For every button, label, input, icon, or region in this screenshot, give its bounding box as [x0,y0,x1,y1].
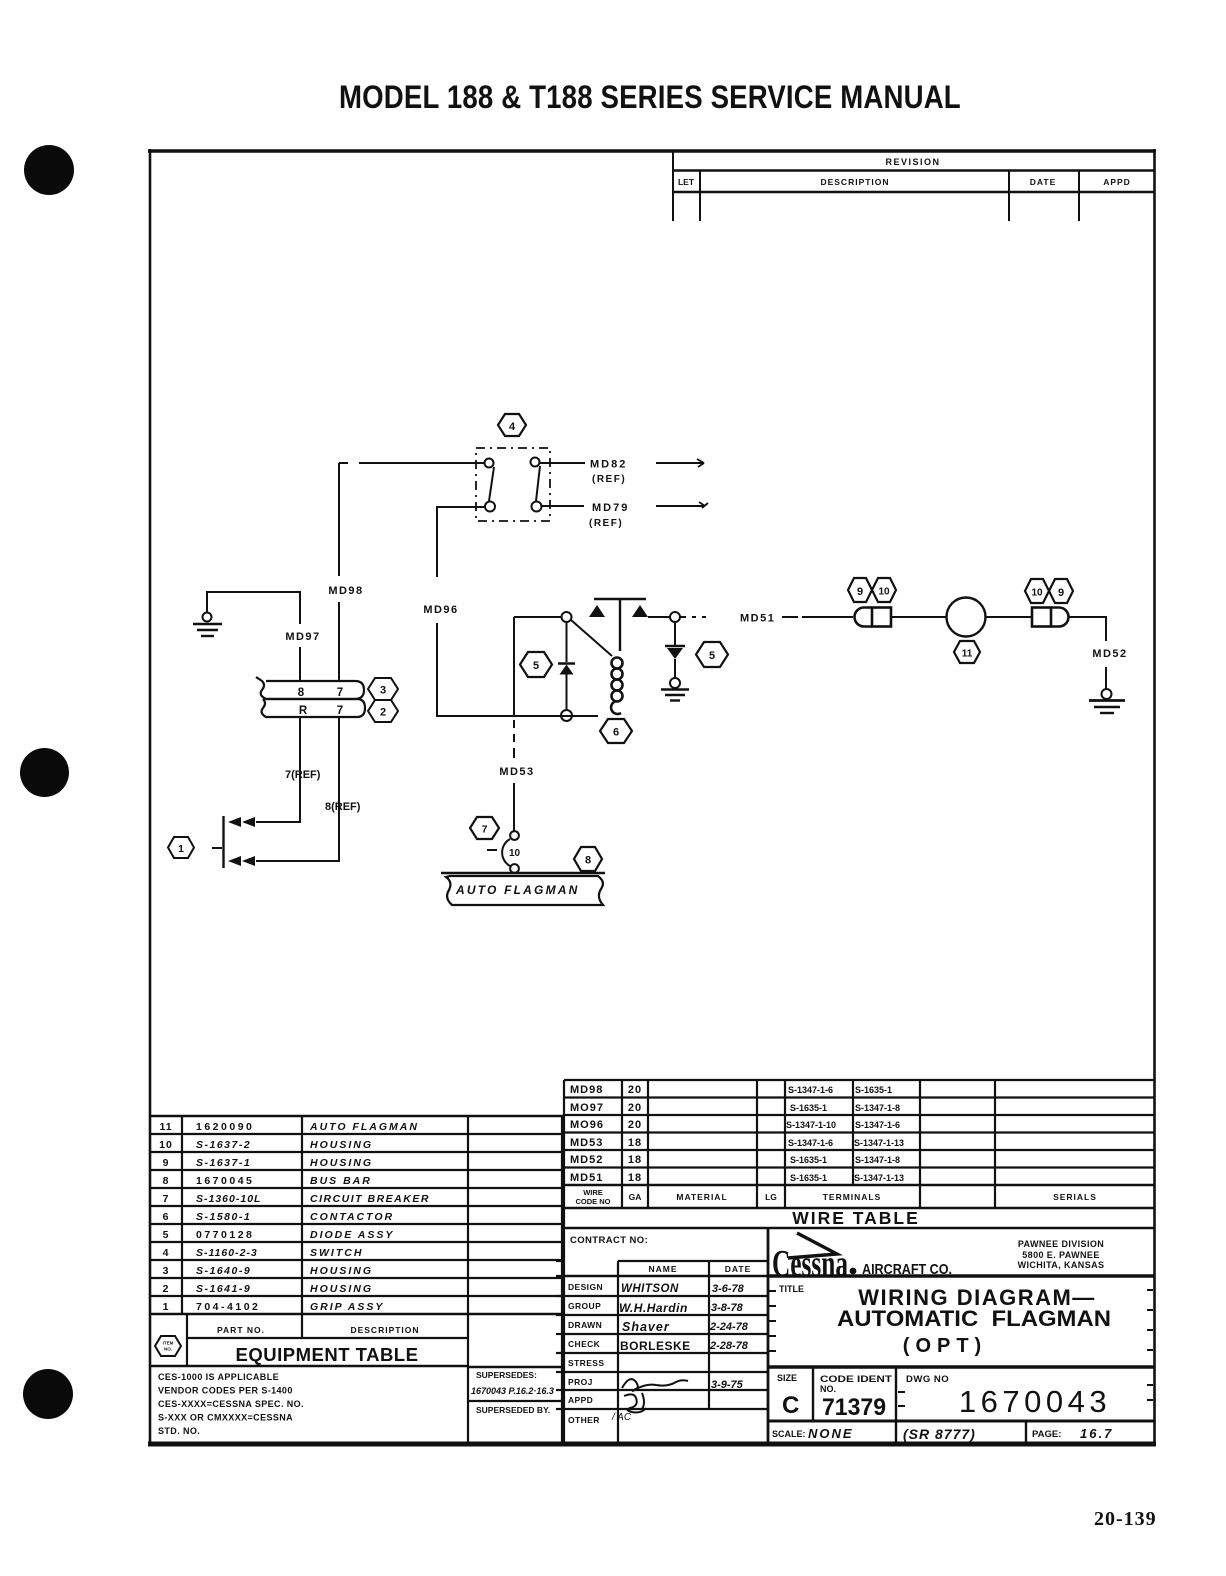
svg-text:Shaver: Shaver [622,1320,670,1334]
wire 8(REF) below connector [256,717,339,861]
title cell edge ticks [769,1290,1153,1406]
ground (right diode) [661,678,689,701]
svg-text:SIZE: SIZE [777,1373,797,1383]
svg-text:S-1580-1: S-1580-1 [196,1211,251,1223]
svg-text:(OPT): (OPT) [903,1335,987,1357]
svg-text:8: 8 [585,855,591,867]
equipment table grid [151,1116,564,1367]
svg-text:S-1635-1: S-1635-1 [790,1155,827,1165]
svg-text:PROJ: PROJ [568,1377,593,1387]
svg-text:3: 3 [380,685,386,697]
bus bar (item 8) banner [441,873,605,905]
wire MD96 vertical [437,507,485,715]
svg-text:PAWNEE DIVISION: PAWNEE DIVISION [1018,1239,1104,1249]
connector pin R / pin 7 row 2 [299,705,343,717]
bus bar label AUTO FLAGMAN [455,883,580,897]
item callout 1 (grip assy) [168,837,194,858]
svg-text:HOUSING: HOUSING [310,1265,373,1277]
wire motor to right connector [986,616,1033,618]
drawing border frame [148,149,1156,1444]
svg-text:TITLE: TITLE [779,1284,804,1294]
wire table terminals text [786,1085,904,1183]
svg-text:S-1347-1-13: S-1347-1-13 [854,1173,904,1183]
svg-text:5: 5 [533,660,539,672]
svg-text:NO.: NO. [820,1384,836,1394]
net label MD51 [740,613,775,625]
net label MD53 [499,766,534,778]
proj signature squiggle [622,1379,688,1391]
svg-text:1670045: 1670045 [196,1175,254,1187]
svg-text:AUTO FLAGMAN: AUTO FLAGMAN [455,883,580,897]
title block grid right [768,1276,1154,1444]
item callout 5 (diode assy, left) [520,652,552,677]
wire table rows text [570,1084,642,1184]
grip assy (item 1) arrows row 2 [228,856,255,866]
svg-text:WICHITA, KANSAS: WICHITA, KANSAS [1018,1260,1105,1270]
appd signature squiggle [624,1393,646,1413]
svg-text:TERMINALS: TERMINALS [823,1192,882,1202]
svg-text:LET: LET [678,177,695,187]
svg-text:18: 18 [628,1172,642,1184]
hole punch top [24,145,74,195]
contactor fixed contact right [632,605,648,617]
svg-text:8: 8 [298,687,305,699]
svg-text:DESCRIPTION: DESCRIPTION [820,177,889,187]
svg-text:DESIGN: DESIGN [568,1282,603,1292]
svg-text:CODE NO: CODE NO [575,1197,610,1206]
svg-text:VENDOR CODES PER S-1400: VENDOR CODES PER S-1400 [158,1386,293,1396]
svg-text:WIRE: WIRE [583,1188,603,1197]
svg-text:5: 5 [709,650,715,662]
svg-text:0770128: 0770128 [196,1229,254,1241]
drawing title text [779,1284,1111,1357]
svg-text:20: 20 [628,1102,642,1114]
svg-text:10: 10 [1031,588,1043,599]
wire MD52 [1069,617,1106,689]
svg-text:S-1160-2-3: S-1160-2-3 [196,1247,258,1259]
grip assy (item 1) arrows row 1 [228,817,255,827]
svg-text:WIRE TABLE: WIRE TABLE [792,1208,920,1228]
svg-text:S-1360-10L: S-1360-10L [196,1193,261,1205]
sr number cell [903,1426,976,1442]
title block left labels [568,1235,751,1425]
svg-text:DWG NO: DWG NO [906,1374,949,1385]
item callout 3 (housing) [368,678,398,700]
svg-text:DRAWN: DRAWN [568,1320,602,1330]
svg-text:HOUSING: HOUSING [310,1157,373,1169]
svg-text:APPD: APPD [1103,177,1131,187]
svg-text:10: 10 [509,848,521,859]
page heading [339,79,961,116]
wire MD51 to motor [891,616,947,618]
svg-text:7(REF): 7(REF) [285,769,321,781]
wire MD82 (REF) stub [539,462,585,464]
net label MD52 [1092,648,1127,660]
svg-text:NO.: NO. [164,1347,172,1352]
hole punch bottom [23,1369,73,1419]
svg-text:20: 20 [628,1084,642,1096]
title block grid left [564,1228,768,1444]
svg-text:Cessna: Cessna [772,1243,848,1285]
label 8(REF) [325,801,361,813]
ground (left, MD97 net) [193,592,222,636]
svg-text:GRIP ASSY: GRIP ASSY [310,1301,384,1313]
cessna logo [772,1243,952,1285]
svg-text:S-1635-1: S-1635-1 [790,1173,827,1183]
connector pair left (items 9/10) [855,608,891,627]
wire MD97 vertical [299,591,301,681]
item callout 6 (contactor) [600,719,632,743]
page number [1094,1508,1157,1531]
equipment table item rows [159,1121,430,1313]
svg-text:S-1635-1: S-1635-1 [790,1103,827,1113]
pawnee division address [1018,1239,1105,1270]
svg-text:OTHER: OTHER [568,1415,600,1425]
svg-text:9: 9 [857,586,863,598]
svg-text:MD52: MD52 [570,1154,603,1166]
svg-text:8: 8 [163,1175,170,1187]
svg-text:1620090: 1620090 [196,1121,254,1133]
svg-text:CIRCUIT BREAKER: CIRCUIT BREAKER [310,1193,430,1205]
equipment table header [217,1325,420,1335]
svg-text:7: 7 [337,705,343,717]
item callout 11 (auto flagman) [954,641,980,663]
net label MD96 [423,604,458,616]
svg-text:HOUSING: HOUSING [310,1283,373,1295]
scale cell [772,1426,854,1441]
circuit breaker (item 7) [487,831,519,873]
svg-text:SWITCH: SWITCH [310,1247,363,1259]
switch pole A [485,459,496,512]
connector pair right (items 10/9) [1032,608,1069,627]
svg-text:S-1637-1: S-1637-1 [196,1157,251,1169]
svg-text:18: 18 [628,1137,642,1149]
svg-text:SERIALS: SERIALS [1053,1192,1097,1202]
svg-text:11: 11 [962,649,973,660]
svg-text:1670043: 1670043 [959,1384,1111,1419]
svg-text:20: 20 [628,1119,642,1131]
svg-text:S-1637-2: S-1637-2 [196,1139,251,1151]
svg-text:8(REF): 8(REF) [325,801,361,813]
svg-text:S-XXX OR CMXXXX=CESSNA: S-XXX OR CMXXXX=CESSNA [158,1413,293,1423]
svg-text:5: 5 [163,1229,170,1241]
svg-text:4: 4 [163,1247,170,1259]
item callout 8 (bus bar) [574,847,602,871]
net label MD97 [285,631,320,643]
svg-text:MD98: MD98 [570,1084,603,1096]
cessna swoosh [788,1233,837,1258]
wire MD53 vertical [513,617,515,831]
svg-text:MD52: MD52 [1092,648,1127,660]
svg-text:CONTRACT NO:: CONTRACT NO: [570,1235,648,1246]
svg-text:LG: LG [765,1192,777,1202]
svg-text:7: 7 [163,1193,170,1205]
svg-text:MD51: MD51 [570,1172,603,1184]
equipment table caption [236,1344,419,1365]
svg-text:C: C [782,1392,799,1419]
svg-text:(REF): (REF) [589,518,623,529]
svg-text:3-8-78: 3-8-78 [711,1302,744,1314]
svg-text:3-6-78: 3-6-78 [712,1283,745,1295]
svg-text:PART NO.: PART NO. [217,1325,265,1335]
wire MD79 arrow [656,502,708,508]
item callout 10 (housing, left pair) [872,578,896,602]
svg-text:S-1641-9: S-1641-9 [196,1283,251,1295]
svg-text:MO96: MO96 [570,1119,604,1131]
wire MD98 top horizontal to switch [339,462,484,464]
svg-text:3: 3 [163,1265,170,1277]
svg-text:EQUIPMENT TABLE: EQUIPMENT TABLE [236,1344,419,1365]
vendor code notes [158,1372,304,1436]
svg-text:9: 9 [1058,587,1064,599]
svg-text:NONE: NONE [808,1426,854,1441]
svg-text:CES-XXXX=CESSNA SPEC. NO.: CES-XXXX=CESSNA SPEC. NO. [158,1399,304,1409]
svg-text:S-1347-1-6: S-1347-1-6 [788,1085,833,1095]
svg-text:(SR 8777): (SR 8777) [903,1426,976,1442]
svg-text:MD79: MD79 [592,502,629,514]
svg-text:AUTOMATIC FLAGMAN: AUTOMATIC FLAGMAN [837,1306,1111,1331]
diode assy left (item 5) [558,622,575,710]
node A (coil/diode top) [562,612,572,622]
svg-text:704-4102: 704-4102 [196,1301,260,1313]
svg-text:9: 9 [163,1157,170,1169]
wire table header [575,1188,1096,1206]
svg-text:S-1640-9: S-1640-9 [196,1265,251,1277]
wire MD82 arrow [656,459,704,467]
svg-text:GROUP: GROUP [568,1301,601,1311]
grip assy (item 1) bar [212,816,224,868]
svg-text:DATE: DATE [725,1264,752,1274]
svg-text:R: R [299,705,308,717]
wire MD53 to node [514,616,561,618]
svg-text:BUS BAR: BUS BAR [310,1175,372,1187]
svg-text:MD51: MD51 [740,613,775,625]
svg-text:DATE: DATE [1030,177,1057,187]
wire MD51 [680,616,853,618]
svg-text:S-1347-1-8: S-1347-1-8 [855,1155,900,1165]
svg-text:10: 10 [159,1139,173,1151]
hole punch middle [20,748,69,797]
svg-text:2: 2 [380,707,386,719]
svg-text:4: 4 [509,421,516,433]
ground (MD52) [1089,689,1125,713]
svg-text:PAGE:: PAGE: [1032,1429,1061,1440]
svg-text:1: 1 [163,1301,170,1313]
wire MD98 vertical [338,463,340,681]
svg-text:S-1347-1-8: S-1347-1-8 [855,1103,900,1113]
svg-text:MATERIAL: MATERIAL [676,1192,727,1202]
code ident cell [820,1374,892,1421]
svg-text:ITEM: ITEM [163,1341,174,1346]
svg-text:5800 E. PAWNEE: 5800 E. PAWNEE [1022,1250,1099,1260]
switch (item 4) dashed outline [476,448,550,521]
svg-text:2-28-78: 2-28-78 [709,1340,749,1352]
svg-text:7: 7 [337,687,343,699]
supersedes text [471,1370,554,1415]
wire from right contact to node C [648,616,670,618]
svg-text:HOUSING: HOUSING [310,1139,373,1151]
contactor (item 6) moving bar and stem [594,599,646,651]
node C (MD51 junction) [670,612,680,622]
svg-text:S-1347-1-6: S-1347-1-6 [855,1120,900,1130]
item no hexagon symbol [155,1336,181,1356]
wire MD79 (REF) stub [541,505,584,507]
title block left edge stubs [556,1261,564,1409]
svg-text:S-1347-1-6: S-1347-1-6 [788,1138,833,1148]
breaker rating 10 [509,848,521,859]
item callout 10 (housing, right pair) [1025,579,1049,603]
item callout 7 (circuit breaker) [470,817,499,839]
supersedes box [468,1228,562,1444]
svg-text:3-9-75: 3-9-75 [711,1379,744,1391]
svg-text:18: 18 [628,1154,642,1166]
wire table caption [792,1208,920,1228]
other signature [611,1412,632,1423]
svg-text:MD82: MD82 [590,459,627,471]
svg-text:10: 10 [878,587,890,598]
wire table grid [564,1080,1154,1228]
svg-text:APPD: APPD [568,1395,593,1405]
svg-text:STRESS: STRESS [568,1358,604,1368]
diode assy right (item 5) [665,622,685,678]
switch pole B [531,458,542,512]
svg-text:6: 6 [163,1211,170,1223]
svg-text:(REF): (REF) [592,474,626,485]
svg-text:W.H.Hardin: W.H.Hardin [619,1301,688,1315]
svg-text:71379: 71379 [822,1394,886,1421]
svg-text:BORLESKE: BORLESKE [620,1339,691,1353]
svg-text:SCALE:: SCALE: [772,1429,806,1439]
svg-text:SUPERSEDED BY.: SUPERSEDED BY. [476,1405,550,1415]
svg-text:WHITSON: WHITSON [621,1283,679,1295]
wire MD97 horizontal [206,591,300,593]
svg-text:2-24-78: 2-24-78 [709,1321,749,1333]
wire 7(REF) below connector [256,717,300,822]
svg-text:SUPERSEDES:: SUPERSEDES: [476,1370,537,1380]
svg-text:MO97: MO97 [570,1102,604,1114]
svg-text:S-1635-1: S-1635-1 [855,1085,892,1095]
svg-text:MD53: MD53 [570,1137,603,1149]
svg-text:MD53: MD53 [499,766,534,778]
svg-text:REVISION: REVISION [885,157,940,167]
auto flagman motor (item 11) [947,598,986,637]
title block signatures [619,1283,749,1391]
size cell [777,1373,799,1419]
svg-text:AUTO FLAGMAN: AUTO FLAGMAN [309,1121,419,1133]
svg-text:STD. NO.: STD. NO. [158,1426,200,1436]
svg-text:MD97: MD97 [285,631,320,643]
svg-text:MD98: MD98 [328,585,363,597]
svg-text:GA: GA [629,1192,642,1202]
contactor coil (item 6) [611,658,622,714]
connector (items 3/2) row 2 [262,699,365,717]
wire MD96 bottom horizontal [436,715,598,717]
net label MD82 (REF) [590,459,627,486]
svg-text:16.7: 16.7 [1080,1426,1113,1441]
svg-text:1: 1 [178,843,184,855]
svg-text:S-1347-1-10: S-1347-1-10 [786,1120,836,1130]
svg-text:1670043 P.16.2·16.3: 1670043 P.16.2·16.3 [471,1386,554,1396]
node B (diode bottom junction) [561,710,572,721]
item callout 9 (housing, right pair) [1049,579,1073,603]
connector pin 8 / pin 7 row 1 [298,687,343,699]
contactor armature diagonal [571,620,612,656]
revision table [673,150,1154,221]
svg-text:CONTACTOR: CONTACTOR [310,1211,394,1223]
svg-text:7: 7 [482,824,488,836]
svg-text:CHECK: CHECK [568,1339,601,1349]
net label MD79 (REF) [589,502,629,529]
page cell [1032,1426,1113,1441]
item callout 5 (diode assy, right) [696,642,728,667]
svg-text:S-1347-1-13: S-1347-1-13 [854,1138,904,1148]
svg-text:/ AC: / AC [611,1412,632,1423]
item callout 9 (housing, left pair) [848,578,872,602]
svg-text:CES-1000 IS APPLICABLE: CES-1000 IS APPLICABLE [158,1372,279,1382]
svg-text:2: 2 [163,1283,170,1295]
item callout 2 (housing) [368,700,398,722]
dwg no cell [906,1374,1111,1419]
svg-text:DIODE ASSY: DIODE ASSY [310,1229,394,1241]
svg-text:MD96: MD96 [423,604,458,616]
connector (items 3/2) row 1 [256,677,364,699]
net label MD98 [328,585,363,597]
item callout 4 (switch) [498,414,526,436]
svg-text:DESCRIPTION: DESCRIPTION [350,1325,419,1335]
svg-text:NAME: NAME [648,1264,677,1274]
label 7(REF) [285,769,321,781]
contactor fixed contact left [589,605,605,617]
svg-text:11: 11 [159,1121,172,1133]
svg-text:6: 6 [613,727,619,739]
